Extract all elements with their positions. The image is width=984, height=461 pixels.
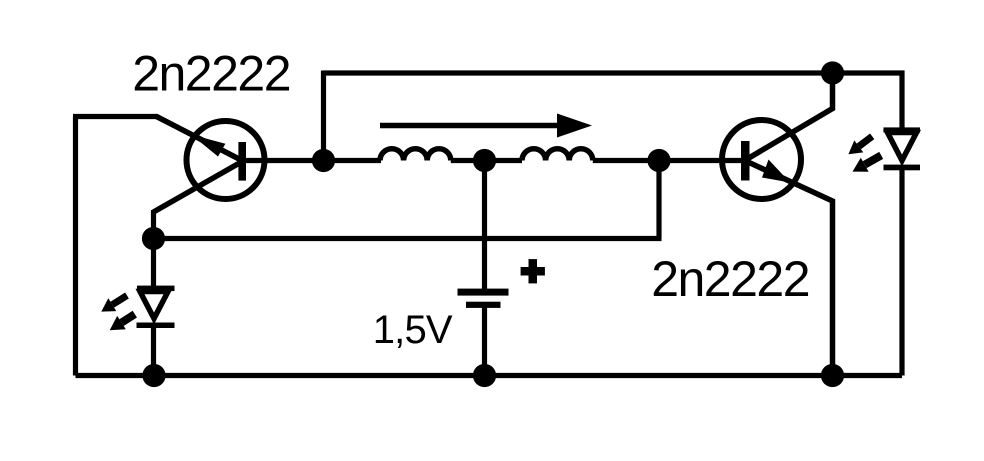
wire Q1 collector drop xyxy=(151,210,156,239)
wire battery bottom xyxy=(482,306,487,376)
node base-left junction xyxy=(312,149,335,172)
wire center tap segment xyxy=(451,158,522,163)
svg-text:1,5V: 1,5V xyxy=(373,308,453,352)
node base-right junction xyxy=(647,149,670,172)
wire top-left horizontal xyxy=(73,114,158,119)
label battery plus xyxy=(521,259,545,283)
transistor Q1 xyxy=(187,121,265,199)
wire coil to Q2 base xyxy=(593,158,741,163)
LED D1 light arrow 1 xyxy=(101,296,127,312)
wire feedback riser xyxy=(321,71,326,161)
LED D1 xyxy=(137,239,175,376)
svg-text:2n2222: 2n2222 xyxy=(132,45,290,101)
wire battery top xyxy=(482,161,487,290)
wire Q2 emitter to ground xyxy=(748,162,833,376)
inductor L1 xyxy=(380,149,451,161)
node D1 cathode ground xyxy=(142,364,165,387)
node Q2 emitter ground xyxy=(821,364,844,387)
wire Q2 collector to top rail xyxy=(748,71,833,159)
transistor Q2 xyxy=(722,120,801,199)
node Q2 collector junction xyxy=(821,61,844,84)
wire cross-coupling drop xyxy=(656,161,661,239)
wire Q1 collector diagonal xyxy=(154,161,244,212)
wire top rail xyxy=(324,73,903,131)
battery BT1 xyxy=(458,289,509,308)
node center tap xyxy=(473,149,496,172)
wire Q1 base to coil xyxy=(243,158,381,163)
inductor L2 xyxy=(522,149,593,161)
node Q1 collector junction xyxy=(142,227,165,250)
LED D2 xyxy=(884,127,921,375)
wire bottom rail xyxy=(76,373,903,378)
LED D2 light arrow 1 xyxy=(848,136,872,154)
wire left rail xyxy=(73,117,78,376)
current arrow xyxy=(380,114,592,138)
svg-text:2n2222: 2n2222 xyxy=(651,251,809,307)
node battery ground xyxy=(473,364,496,387)
wire cross-coupling horizontal xyxy=(154,236,662,241)
LED D2 light arrow 2 xyxy=(853,155,882,171)
wire Q1 emitter diagonal xyxy=(157,117,244,162)
LED D1 light arrow 2 xyxy=(110,314,135,330)
